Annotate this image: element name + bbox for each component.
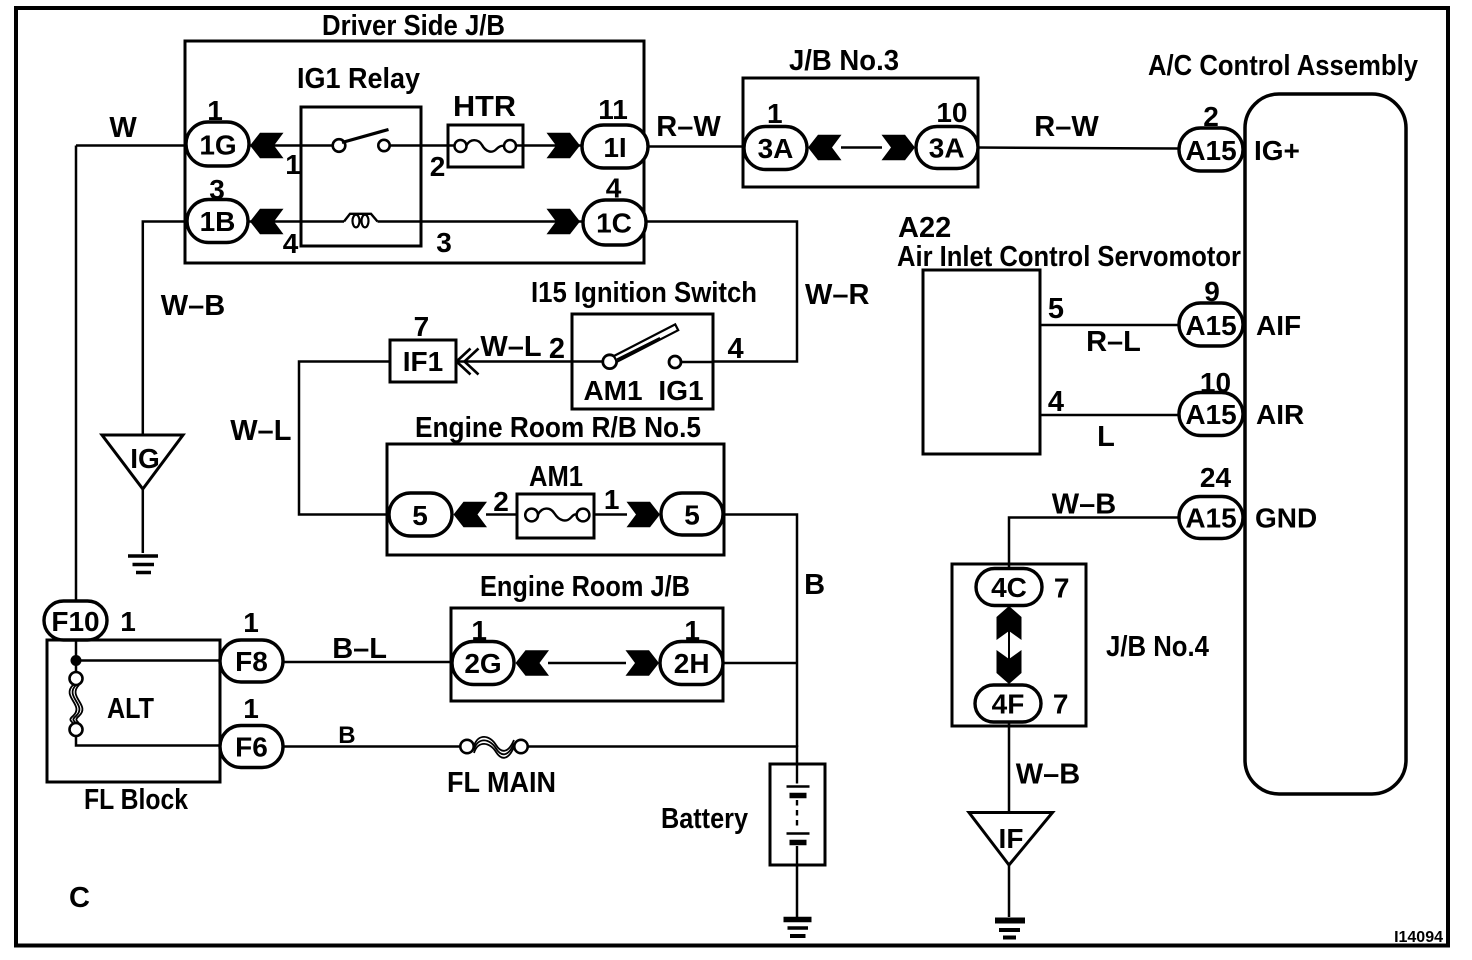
- svg-text:R–W: R–W: [656, 111, 721, 143]
- svg-text:Battery: Battery: [661, 803, 748, 835]
- svg-text:3A: 3A: [758, 133, 794, 164]
- svg-text:A15: A15: [1185, 399, 1236, 430]
- svg-text:AIR: AIR: [1256, 399, 1304, 430]
- svg-text:W–L: W–L: [230, 415, 291, 447]
- arrow male at 1C: [547, 209, 581, 234]
- svg-text:1C: 1C: [596, 208, 632, 239]
- wire ignition switch AM1 to IF1: [456, 360, 572, 363]
- connector A15 GND: [1179, 497, 1243, 539]
- svg-text:Air Inlet Control Servomotor: Air Inlet Control Servomotor: [897, 241, 1241, 273]
- relay box IG1 Relay: [301, 107, 421, 246]
- svg-text:I15 Ignition Switch: I15 Ignition Switch: [531, 277, 757, 309]
- wire inside ignition switch right: [681, 361, 713, 364]
- svg-text:1G: 1G: [199, 130, 236, 161]
- svg-text:R–W: R–W: [1034, 111, 1099, 143]
- svg-text:IG1: IG1: [658, 375, 703, 406]
- wire W-L from IF1 down to R/B No.5: [299, 362, 390, 515]
- box Engine Room R/B No.5: [387, 444, 724, 555]
- svg-text:J/B No.3: J/B No.3: [789, 45, 899, 77]
- svg-text:B–L: B–L: [332, 633, 387, 665]
- wire junction to F8: [76, 659, 221, 662]
- box FL Block: [47, 640, 220, 782]
- wire F6 to FL MAIN: [283, 745, 461, 748]
- wire battery to ground: [796, 865, 799, 917]
- svg-text:24: 24: [1200, 462, 1232, 493]
- wire left 5 arrow to AM1 fuse: [486, 513, 517, 516]
- fusible link FL MAIN: [460, 740, 473, 753]
- wire FL MAIN to battery: [528, 747, 797, 765]
- connector F10: [44, 601, 107, 640]
- svg-text:2: 2: [430, 151, 446, 182]
- wire between 2G 2H arrows: [548, 662, 626, 665]
- double arrow J/B No.4: [1008, 630, 1010, 661]
- connector 3A pin1: [744, 127, 807, 170]
- box Driver Side J/B: [185, 41, 644, 263]
- svg-text:4C: 4C: [991, 572, 1027, 603]
- wire right 5 to vertical bus: [723, 515, 797, 748]
- ALT circle top: [70, 672, 83, 685]
- svg-text:4: 4: [283, 228, 299, 259]
- wire 1G to relay contact: [249, 144, 333, 147]
- connector 3A pin10: [916, 127, 978, 169]
- wire 1I to 3A pin 1: [647, 145, 744, 148]
- svg-text:W–R: W–R: [805, 279, 870, 311]
- svg-text:Engine Room R/B No.5: Engine Room R/B No.5: [415, 412, 701, 444]
- connector 2H: [660, 642, 723, 685]
- svg-text:5: 5: [412, 500, 428, 531]
- connector chevrons at IF1: [457, 349, 479, 375]
- svg-text:1: 1: [243, 607, 259, 638]
- connector 1G: [186, 122, 249, 166]
- ALT circle bottom: [70, 723, 83, 736]
- svg-text:Engine Room J/B: Engine Room J/B: [480, 571, 690, 603]
- wire ALT lower circle to F6: [76, 736, 220, 746]
- wire W-B A15 GND to 4C: [1009, 518, 1180, 570]
- arrow female at 1G: [250, 133, 284, 158]
- wire inside ignition switch left: [572, 360, 603, 363]
- ground IF: [995, 921, 1025, 938]
- svg-text:L: L: [1097, 421, 1115, 453]
- svg-text:W–B: W–B: [1052, 489, 1116, 521]
- connector 4F: [975, 685, 1041, 722]
- junction dot F10: [71, 655, 82, 666]
- svg-text:7: 7: [1054, 573, 1070, 604]
- svg-text:2H: 2H: [674, 648, 710, 679]
- svg-text:1: 1: [285, 149, 301, 180]
- svg-text:J/B No.4: J/B No.4: [1106, 631, 1209, 663]
- arrow female at 3A: [808, 135, 842, 160]
- svg-text:1: 1: [471, 615, 487, 646]
- svg-text:9: 9: [1204, 276, 1220, 307]
- wire relay coil to 1C: [378, 220, 584, 223]
- svg-text:1I: 1I: [603, 132, 626, 163]
- svg-text:4F: 4F: [992, 689, 1025, 720]
- connector F8: [220, 640, 283, 682]
- svg-text:2: 2: [549, 333, 565, 365]
- wire W vertical down to F10: [75, 146, 78, 602]
- wire F8 to 2G B-L: [283, 661, 452, 664]
- svg-text:5: 5: [1048, 293, 1064, 325]
- svg-text:IF1: IF1: [403, 346, 443, 377]
- fuse box IF1: [390, 340, 456, 382]
- connector 1B: [187, 200, 248, 243]
- wire W horizontal to 1G: [76, 144, 186, 147]
- svg-text:A15: A15: [1185, 503, 1236, 534]
- svg-text:4: 4: [606, 173, 622, 204]
- box A/C Control Assembly: [1245, 94, 1406, 794]
- svg-text:R–L: R–L: [1086, 326, 1141, 358]
- svg-text:1: 1: [207, 95, 223, 126]
- wire AM1 fuse to right arrow: [594, 513, 627, 516]
- svg-text:1: 1: [767, 98, 783, 129]
- ignition switch contact AM1: [603, 355, 617, 369]
- svg-text:11: 11: [598, 94, 628, 125]
- arrow female at 1B: [250, 209, 284, 234]
- wire relay contacts gap: [333, 144, 345, 147]
- wire servo pin 4 to A15 AIR: [1040, 414, 1180, 417]
- wire R-W 3A pin10 to A15 IG+: [977, 148, 1180, 149]
- connector 5 left: [389, 493, 452, 536]
- wire 1B left to W-B vertical: [143, 222, 187, 436]
- arrow male at 2H: [626, 650, 660, 675]
- wire servo pin 5 to A15 AIF: [1040, 324, 1180, 327]
- wire 4F to IF triangle: [1008, 722, 1011, 812]
- connector A15 AIR: [1179, 393, 1243, 436]
- connector 1C: [583, 200, 646, 245]
- svg-text:AM1: AM1: [529, 461, 583, 493]
- svg-text:4: 4: [1048, 386, 1064, 418]
- connector 1I: [582, 125, 648, 168]
- svg-text:3: 3: [209, 174, 225, 205]
- svg-text:7: 7: [414, 311, 430, 342]
- ignition switch contact IG1: [669, 356, 681, 368]
- box Battery: [770, 764, 825, 865]
- svg-text:4: 4: [728, 333, 744, 365]
- svg-text:F6: F6: [235, 732, 268, 763]
- wire relay contact to HTR fuse: [390, 144, 455, 147]
- fuse HTR element: [455, 140, 467, 152]
- box J/B No.4: [952, 564, 1086, 726]
- wire junction to ALT circle: [75, 661, 78, 673]
- svg-text:IG1 Relay: IG1 Relay: [297, 63, 420, 95]
- svg-text:2: 2: [493, 486, 509, 517]
- box Engine Room J/B: [451, 608, 723, 701]
- svg-text:2G: 2G: [464, 648, 501, 679]
- wire IG triangle to ground: [142, 489, 145, 553]
- fuse box HTR: [448, 125, 523, 167]
- wire W-R from 1C down to ignition switch pin 4: [646, 222, 797, 362]
- svg-text:IG: IG: [130, 443, 160, 474]
- svg-text:A15: A15: [1185, 310, 1236, 341]
- svg-text:F8: F8: [235, 646, 268, 677]
- relay switch blade: [342, 130, 389, 143]
- fuse AM1 element: [525, 509, 538, 522]
- connector 5 right: [661, 493, 723, 535]
- connector 2G: [452, 642, 514, 685]
- ground triangle IF: [969, 813, 1053, 866]
- svg-text:W–L: W–L: [480, 331, 541, 363]
- svg-text:10: 10: [936, 97, 967, 128]
- relay coil: [344, 214, 378, 222]
- svg-text:3: 3: [436, 227, 452, 258]
- svg-text:Driver Side J/B: Driver Side J/B: [322, 10, 505, 42]
- svg-text:I14094: I14094: [1394, 929, 1443, 946]
- box I15 Ignition Switch: [572, 314, 713, 409]
- fuse box AM1: [517, 494, 594, 538]
- arrow male at 5 right: [627, 502, 661, 527]
- svg-text:A22: A22: [898, 212, 951, 244]
- svg-text:FL Block: FL Block: [84, 784, 189, 816]
- ground triangle IG: [102, 435, 183, 489]
- svg-text:IF: IF: [999, 823, 1024, 854]
- ground IG: [128, 556, 158, 573]
- svg-text:10: 10: [1200, 367, 1231, 398]
- relay switch contact left: [333, 139, 346, 152]
- svg-text:A15: A15: [1185, 135, 1236, 166]
- svg-text:2: 2: [1203, 101, 1219, 132]
- ignition switch blade: [614, 324, 678, 361]
- svg-text:B: B: [338, 722, 355, 749]
- svg-text:W–B: W–B: [1016, 759, 1080, 791]
- wire 1B to relay coil: [248, 220, 344, 223]
- connector 4C: [976, 569, 1042, 606]
- svg-text:AM1: AM1: [583, 375, 642, 406]
- svg-text:GND: GND: [1255, 503, 1317, 534]
- arrow female at 5 left: [454, 502, 488, 527]
- svg-text:1: 1: [243, 693, 259, 724]
- arrow female at 2G: [516, 650, 550, 675]
- svg-text:5: 5: [684, 500, 700, 531]
- svg-text:1: 1: [120, 606, 136, 637]
- svg-text:W–B: W–B: [161, 290, 225, 322]
- connector A15 IG+: [1179, 128, 1243, 171]
- connector A15 AIF: [1179, 303, 1243, 346]
- box A22 servomotor: [923, 270, 1040, 454]
- wire between 3A arrows: [841, 146, 882, 149]
- ground battery: [784, 920, 812, 937]
- wire HTR fuse to 1I: [516, 144, 583, 147]
- arrow male at 1I: [547, 133, 581, 158]
- relay switch contact right: [378, 140, 389, 151]
- battery cell symbol: [787, 764, 810, 865]
- svg-text:3A: 3A: [929, 133, 965, 164]
- svg-text:1: 1: [684, 615, 700, 646]
- svg-text:AIF: AIF: [1256, 310, 1301, 341]
- connector F6: [220, 726, 283, 768]
- svg-text:A/C Control Assembly: A/C Control Assembly: [1148, 50, 1418, 82]
- svg-text:IG+: IG+: [1254, 135, 1300, 166]
- svg-text:C: C: [69, 882, 90, 914]
- svg-text:1: 1: [604, 484, 620, 515]
- svg-text:ALT: ALT: [107, 693, 154, 725]
- fusible link FL block squiggle: [70, 685, 83, 724]
- svg-text:FL MAIN: FL MAIN: [447, 767, 556, 799]
- arrow male at 3A: [882, 135, 916, 160]
- wire F10 to junction: [75, 640, 78, 656]
- svg-text:W: W: [109, 112, 137, 144]
- svg-text:HTR: HTR: [453, 91, 516, 123]
- svg-text:F10: F10: [51, 606, 99, 637]
- wire 2H to vertical bus: [723, 662, 797, 665]
- svg-text:1B: 1B: [200, 206, 236, 237]
- box J/B No.3: [743, 78, 978, 187]
- wire IF triangle to ground: [1008, 865, 1011, 917]
- svg-text:7: 7: [1053, 689, 1069, 720]
- svg-text:B: B: [804, 569, 825, 601]
